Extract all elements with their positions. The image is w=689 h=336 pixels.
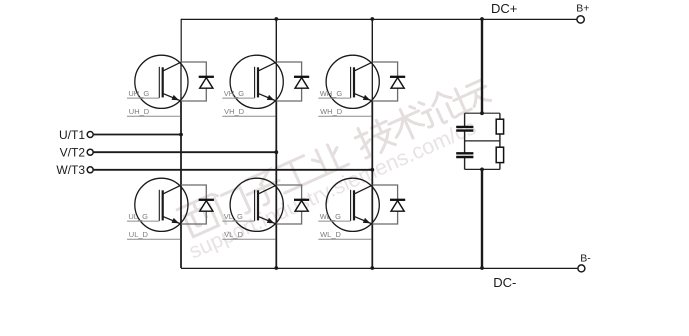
- IGBT UH gate bar: [158, 67, 160, 98]
- IGBT WH emitter arrowhead: [363, 95, 371, 100]
- wire: phase V upper stub from DC+ rail: [275, 19, 277, 63]
- wire: diode loop for WH: [372, 62, 397, 101]
- wire: phase V leg upper IGBT collector-emitter span: [275, 62, 277, 102]
- node: snubber top: [480, 111, 484, 115]
- svg-text:UH_G: UH_G: [128, 89, 149, 98]
- resistor R1 (upper balancing resistor): [496, 119, 503, 134]
- IGBT VL gate bar: [254, 190, 256, 221]
- terminal B+: [577, 16, 584, 23]
- IGBT VL emitter arrowhead: [267, 218, 275, 223]
- svg-text:U/T1: U/T1: [59, 128, 85, 142]
- svg-text:WH_D: WH_D: [320, 107, 343, 116]
- IGBT VL body bar: [257, 190, 259, 220]
- watermark: forum URL text (decorative): [185, 115, 479, 264]
- IGBT WL emitter arrowhead: [363, 218, 371, 223]
- IGBT WL collector stroke: [354, 185, 373, 194]
- node: V leg / DC- rail: [274, 266, 278, 270]
- wire: VH_G gate lead: [222, 97, 254, 99]
- terminal B-: [578, 265, 585, 272]
- svg-text:DC+: DC+: [491, 1, 517, 16]
- svg-text:UL_G: UL_G: [128, 212, 148, 221]
- wire: U/T1 output wire: [93, 134, 181, 136]
- IGBT VL (circle envelope): [230, 178, 283, 231]
- svg-text:W/T3: W/T3: [56, 163, 85, 177]
- diode DVH (anti-parallel): [294, 77, 309, 88]
- terminal V/T2: [87, 149, 93, 155]
- svg-text:VH_D: VH_D: [224, 107, 245, 116]
- wire: VH_D lead: [222, 115, 275, 117]
- svg-text:VL_G: VL_G: [224, 212, 243, 221]
- svg-text:VL_D: VL_D: [224, 230, 243, 239]
- wire: phase U upper stub from DC+ rail: [180, 19, 182, 63]
- wire: WH_D lead: [318, 115, 371, 117]
- wire: phase W upper stub from DC+ rail: [371, 19, 373, 63]
- capacitor C2 (lower bus capacitor): [456, 153, 473, 157]
- IGBT UL gate bar: [158, 190, 160, 221]
- node: W leg / DC- rail: [370, 266, 374, 270]
- svg-text:WL_G: WL_G: [320, 212, 341, 221]
- diode DVL (anti-parallel): [294, 200, 309, 211]
- diode DUH (anti-parallel): [199, 77, 214, 88]
- wire: WL_D lead: [318, 238, 371, 240]
- wire: phase W leg (emitter chain down to DC- rail): [371, 101, 373, 268]
- IGBT UL (circle envelope): [135, 178, 188, 231]
- diode DUL (anti-parallel): [199, 200, 214, 211]
- IGBT WH body bar: [353, 67, 355, 97]
- IGBT UH emitter arrowhead: [172, 95, 180, 100]
- IGBT WL gate bar: [350, 190, 352, 221]
- wire: WH_G gate lead: [318, 97, 350, 99]
- IGBT WH gate bar: [350, 67, 352, 98]
- wire: diode loop for WL: [372, 185, 397, 224]
- svg-text:DC-: DC-: [493, 275, 516, 290]
- svg-text:UH_D: UH_D: [129, 107, 150, 116]
- IGBT UL emitter arrowhead: [172, 218, 180, 223]
- wire: diode loop for UH: [181, 62, 206, 101]
- capacitor C1 (upper bus capacitor): [456, 127, 473, 131]
- wire: phase W leg upper IGBT collector-emitter span: [371, 62, 373, 102]
- terminal W/T3: [87, 167, 93, 173]
- wire: DC- bottom rail: [181, 267, 577, 269]
- node: V leg / DC+ rail: [274, 17, 278, 21]
- node: W phase output: [370, 168, 374, 172]
- IGBT VL emitter stroke: [258, 216, 277, 224]
- wire: V/T2 output wire: [93, 151, 276, 153]
- wire: diode loop for VH: [276, 62, 301, 101]
- IGBT VL collector stroke: [258, 185, 277, 194]
- svg-text:V/T2: V/T2: [60, 146, 86, 160]
- IGBT VH body bar: [257, 67, 259, 97]
- node: U phase output: [179, 133, 183, 137]
- wire: snubber midpoint tie: [465, 140, 500, 142]
- wire: phase U leg upper IGBT collector-emitter span: [180, 62, 182, 102]
- svg-text:UL_D: UL_D: [129, 230, 149, 239]
- wire: VL_G gate lead: [222, 220, 254, 222]
- IGBT UH body bar: [162, 67, 164, 97]
- svg-text:B+: B+: [576, 3, 589, 15]
- IGBT WH emitter stroke: [354, 93, 373, 101]
- wire: phase V leg (emitter chain down to DC- rail): [275, 101, 277, 268]
- diode DWL (anti-parallel): [390, 200, 405, 211]
- IGBT VH (circle envelope): [230, 55, 283, 108]
- node: snubber / DC+ rail: [480, 17, 484, 21]
- IGBT UH (circle envelope): [135, 55, 188, 108]
- wire: UH_G gate lead: [127, 97, 159, 99]
- IGBT VH gate bar: [254, 67, 256, 98]
- resistor R2 (lower balancing resistor): [496, 147, 503, 162]
- wire: UH_D lead: [127, 115, 180, 117]
- wire: snubber branch upper vertical from DC+ rail: [481, 19, 483, 113]
- node: snubber / DC- rail: [480, 266, 484, 270]
- IGBT UH emitter stroke: [162, 93, 181, 101]
- node: W leg / DC+ rail: [370, 17, 374, 21]
- watermark: CJK-style forum name (decorative strokes): [177, 74, 493, 240]
- wire: DC+ top rail: [181, 18, 577, 20]
- IGBT WL emitter stroke: [354, 216, 373, 224]
- IGBT VH emitter arrowhead: [267, 95, 275, 100]
- wire: resistor branch segments: [499, 113, 501, 169]
- wire: VL_D lead: [222, 238, 275, 240]
- wire: snubber top connection: [465, 112, 500, 114]
- svg-text:WH_G: WH_G: [320, 89, 343, 98]
- terminal U/T1: [87, 132, 93, 138]
- wire: WL_G gate lead: [318, 220, 350, 222]
- wire: diode loop for VL: [276, 185, 301, 224]
- IGBT WL (circle envelope): [326, 178, 379, 231]
- wire: phase U leg (emitter chain down to DC- rail): [180, 101, 182, 268]
- wire: diode loop for UL: [181, 185, 206, 224]
- wire: capacitor branch segments: [464, 113, 466, 169]
- IGBT UL collector stroke: [162, 185, 181, 194]
- wire: W/T3 output wire: [93, 169, 372, 171]
- IGBT VH emitter stroke: [258, 93, 277, 101]
- IGBT WL body bar: [353, 190, 355, 220]
- IGBT VH collector stroke: [258, 62, 277, 71]
- wire: snubber bottom connection: [465, 168, 500, 170]
- IGBT WH collector stroke: [354, 62, 373, 71]
- wire: UL_G gate lead: [127, 220, 159, 222]
- wire: UL_D lead: [127, 238, 180, 240]
- wire: snubber branch lower vertical to DC- rail: [481, 169, 483, 268]
- IGBT UH collector stroke: [162, 62, 181, 71]
- node: snubber bottom: [480, 168, 484, 172]
- svg-text:B-: B-: [580, 253, 591, 265]
- IGBT UL emitter stroke: [162, 216, 181, 224]
- svg-text:VH_G: VH_G: [224, 89, 245, 98]
- svg-text:WL_D: WL_D: [320, 230, 341, 239]
- IGBT WH (circle envelope): [326, 55, 379, 108]
- diode DWH (anti-parallel): [390, 77, 405, 88]
- IGBT UL body bar: [162, 190, 164, 220]
- node: V phase output: [274, 150, 278, 154]
